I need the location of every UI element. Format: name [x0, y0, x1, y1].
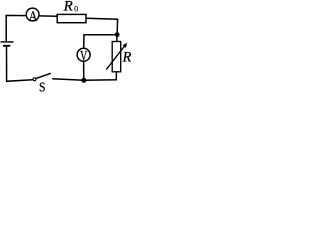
voltmeter V [77, 48, 90, 64]
junction node bottom [81, 78, 86, 83]
battery [1, 42, 14, 46]
wire switch to bottom junction [52, 79, 84, 81]
svg-text:R: R [63, 0, 73, 14]
wire ammeter to resistor [40, 15, 58, 17]
wire battery to bottom-left corner [7, 47, 33, 82]
rheostat R [106, 42, 127, 72]
wire voltmeter to bottom junction [83, 62, 85, 81]
wire top-left segment [6, 15, 25, 41]
resistor R0 [57, 14, 86, 22]
svg-text:A: A [29, 9, 38, 25]
svg-text:S: S [39, 80, 46, 94]
label R0 [63, 0, 79, 14]
wire junction dot to rheostat top [116, 35, 118, 42]
svg-text:R: R [122, 49, 132, 65]
wire resistor to top-right corner and down [86, 18, 118, 34]
label R [122, 49, 132, 65]
junction node top [115, 32, 120, 37]
svg-text:0: 0 [74, 4, 78, 13]
wire junction to rheostat bottom [84, 72, 117, 80]
ammeter A [26, 8, 39, 25]
wire branch to voltmeter [84, 35, 118, 48]
switch S [33, 73, 51, 94]
